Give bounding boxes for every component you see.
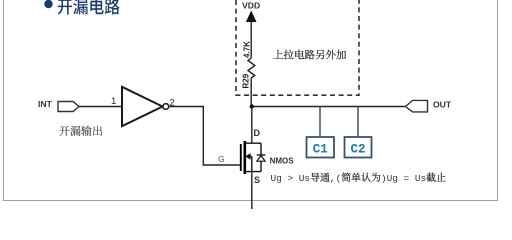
svg-text:INT: INT bbox=[38, 99, 53, 109]
svg-text:NMOS: NMOS bbox=[270, 157, 295, 166]
svg-text:1: 1 bbox=[111, 96, 116, 107]
svg-text:C2: C2 bbox=[350, 143, 365, 157]
svg-text:G: G bbox=[218, 154, 225, 164]
svg-text:Ug > Us导通,(简单认为)Ug = Us截止: Ug > Us导通,(简单认为)Ug = Us截止 bbox=[271, 169, 447, 184]
svg-text:开漏输出: 开漏输出 bbox=[59, 123, 103, 139]
svg-text:OUT: OUT bbox=[433, 100, 452, 110]
svg-text:R29: R29 bbox=[242, 73, 251, 88]
svg-text:开漏电路: 开漏电路 bbox=[57, 0, 120, 19]
svg-text:VDD: VDD bbox=[242, 1, 260, 11]
svg-text:上拉电路另外加: 上拉电路另外加 bbox=[273, 48, 347, 63]
svg-text:4.7K: 4.7K bbox=[243, 41, 252, 58]
svg-text:D: D bbox=[254, 128, 261, 138]
svg-text:C1: C1 bbox=[313, 143, 328, 157]
svg-text:S: S bbox=[254, 175, 260, 185]
